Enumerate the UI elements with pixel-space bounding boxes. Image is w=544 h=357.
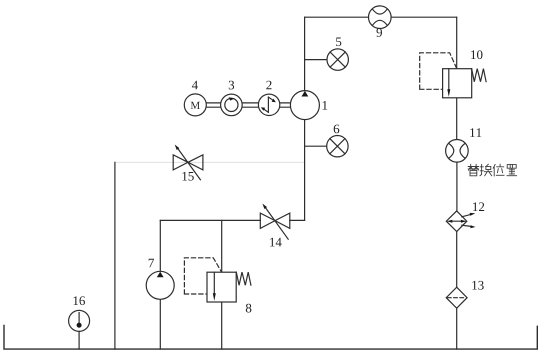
- throttle valve 14: [260, 204, 290, 240]
- shaft: sensor 2 to pump 1: [280, 103, 291, 107]
- glyph 换: [480, 164, 492, 176]
- gauge 5: [327, 49, 348, 70]
- label 9: [377, 28, 383, 37]
- shaft: motor 4 to coupling 3: [206, 103, 220, 107]
- gauge 6: [327, 136, 348, 157]
- glyph 位: [493, 164, 504, 176]
- relief valve 8: [184, 258, 251, 302]
- motor 4: [184, 94, 206, 116]
- wire: left riser below pump 1 down to valve 14 level: [304, 120, 306, 221]
- wire: valve 10 to flow meter 11: [456, 98, 458, 140]
- label 7: [149, 259, 154, 268]
- cooler 12: [446, 211, 475, 232]
- glyph 置: [507, 165, 517, 176]
- wire: left riser above pump 1: [304, 17, 306, 91]
- wire: faint branch through valve 15: [115, 161, 305, 163]
- label 14: [270, 238, 282, 247]
- label 3: [229, 81, 234, 90]
- label 13: [472, 281, 483, 290]
- wire: cooler 12 to filter 13: [456, 232, 458, 288]
- flow meter 11: [446, 140, 469, 163]
- label 5: [336, 38, 341, 47]
- label 1: [323, 101, 328, 110]
- relief valve 10: [420, 53, 486, 98]
- pump 1: [290, 91, 319, 120]
- label 10: [471, 50, 482, 59]
- wire: right column above valve 10: [456, 17, 458, 68]
- pump 7: [146, 271, 174, 299]
- label 12: [473, 202, 484, 211]
- coupling 3: [221, 94, 243, 116]
- label 6: [334, 125, 340, 134]
- label 4: [192, 81, 198, 90]
- wire: elbow to valve 14 right port: [290, 219, 305, 221]
- label 11: [470, 128, 481, 137]
- wire: flow meter 11 to cooler 12: [456, 162, 458, 211]
- tank (open reservoir) bottom line: [4, 326, 537, 350]
- throttle valve 15: [173, 145, 203, 180]
- wire: left tall return line: [114, 162, 116, 349]
- note text: 替换位置 (replacement position), hand-drawn strokes: [468, 164, 516, 176]
- wire: branch to gauge 5: [305, 59, 328, 61]
- label 16: [74, 296, 86, 305]
- wire: top header from pump riser to right column: [305, 16, 457, 18]
- torque sensor 2: [258, 94, 279, 115]
- thermometer 16: [69, 310, 90, 349]
- label 2: [266, 81, 271, 90]
- wire: valve 14 left run: [160, 219, 260, 221]
- flow meter 9: [369, 6, 392, 29]
- filter 13: [446, 287, 467, 308]
- label 15: [182, 172, 193, 181]
- glyph 替: [468, 164, 478, 175]
- wire: relief valve 8 to tank: [221, 302, 223, 349]
- wire: drop to pump 7: [159, 220, 161, 271]
- wire: filter 13 to tank: [456, 308, 458, 349]
- label 8: [246, 304, 252, 313]
- wire: pump 7 to tank: [159, 299, 161, 349]
- wire: branch to gauge 6: [305, 145, 327, 147]
- shaft: coupling 3 to sensor 2: [242, 103, 258, 107]
- wire: drop to relief valve 8: [221, 220, 223, 272]
